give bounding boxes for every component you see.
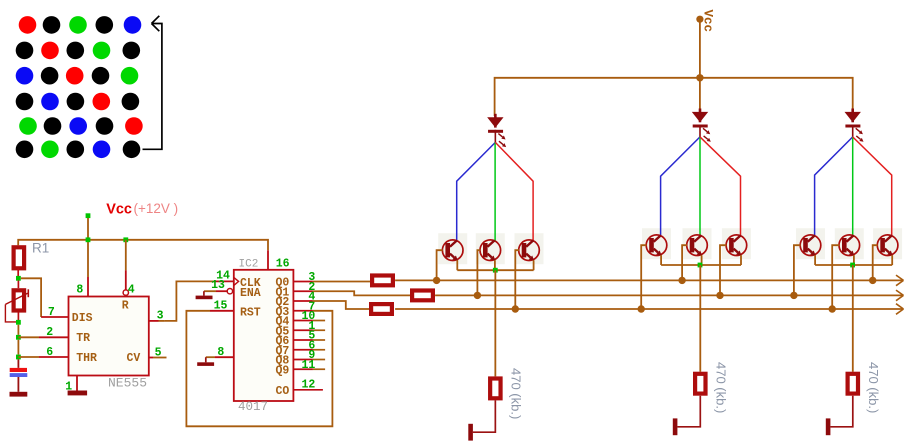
resistor R-470a [490,379,500,399]
wire Q1 to bus resistor [313,291,410,295]
LED colour-sequence legend row 5 [19,117,143,135]
svg-text:12: 12 [301,379,315,392]
svg-text:NE555: NE555 [108,376,147,391]
wire R-470a to ground [473,400,495,432]
ground (capacitor) [10,392,28,397]
pin stub CV (pin 5) [149,357,167,359]
svg-text:4017: 4017 [238,400,268,414]
wire base of T6 to bus [720,245,726,295]
svg-text:3: 3 [157,309,164,322]
resistor R-470c [848,374,858,394]
wire pin 8 to ground [206,357,215,362]
node Vcc symbol (green square) [86,213,91,218]
ground GND (R-470b) [673,418,678,435]
junction emitter rail 1 [493,268,498,273]
wire emitter rail group 2 [661,255,741,265]
resistor R-470b [695,374,705,394]
svg-text:R1: R1 [32,241,49,256]
junction base T9/bus [869,277,876,284]
wire capacitor to ground [17,377,19,392]
wire LED3 red (to T9) [853,137,892,236]
wire OUT stub tail [159,320,165,322]
pin stub Q5 [293,329,313,331]
pin stub THR (pin 6) [39,356,69,358]
wire Vcc drop to 555 pin 8 [87,218,89,277]
LED colour-sequence legend row 2 [16,42,140,60]
pin stub 555 pin 1 [76,376,78,391]
bus 1 arrow [896,275,904,286]
junction base T3/bus [512,305,519,312]
transistor T5 (NPN) [687,235,708,256]
wire stub Q6 (unconnected tail) [313,339,325,341]
ground (4017 pin 8) [197,362,214,366]
wire LED2 blue (to T4) [661,137,700,236]
wire pot to TR junction [17,325,19,335]
wire LED1 red (to T3) [495,142,533,240]
wire base of T7 to bus [794,245,801,295]
LED colour-sequence legend row 1 [19,16,142,34]
svg-text:IC2: IC2 [239,258,259,270]
wire base of T2 to bus [477,250,480,295]
junction rail/pin4 [123,237,128,242]
svg-text:DIS: DIS [72,312,93,325]
transistor T3 (NPN) [519,240,540,261]
wire R-470c to ground [830,396,852,427]
pin stub Q9 [293,368,313,370]
svg-text:470 (kb.): 470 (kb.) [509,368,524,419]
wire base of T1 to bus [437,250,443,280]
pin stub Q0 [293,281,313,283]
wire THR tap to pin 6 [18,356,39,358]
wire emitter rail to R-470b [699,265,701,372]
svg-text:6: 6 [46,346,53,359]
pin CLK (pin 14) stub + clock symbol [214,277,238,285]
LED colour-sequence legend row 6 [16,141,141,159]
wire stub Q4 (unconnected tail) [313,320,325,322]
svg-text:(+12V ): (+12V ) [134,201,179,216]
wire emitter rail group 1 [457,260,533,270]
wire emitter rail to R-470c [852,265,854,372]
node Vcc (supply dot) [696,16,703,23]
label Vcc (+12V) [106,201,178,217]
wire bus 1 (from R-Q0 to right edge) [395,279,903,281]
wire supply rail [18,240,268,251]
svg-text:CO: CO [276,385,290,398]
svg-text:R: R [122,300,129,313]
wire Q2 to bus resistor [313,301,369,309]
svg-text:8: 8 [76,283,83,296]
wire LED3 green (to T8) [852,137,854,236]
wire LED3 blue (to T7) [815,137,853,236]
wire base of T8 to bus [832,245,839,309]
resistor R1 [14,247,25,268]
wire Q3 feedback loop to RST [186,311,332,427]
transistor T6 (NPN) [726,235,747,256]
junction base T1/bus [433,277,440,284]
ground (ENA) [196,296,213,300]
transistor background highlights [438,228,902,264]
wire stub Q5 (unconnected tail) [313,329,325,331]
pin ENA (pin 13) bubble [216,289,233,294]
svg-text:THR: THR [76,352,97,365]
junction base T5/bus [678,277,685,284]
wire base of T4 to bus [641,245,646,309]
pin stub Q8 [293,359,313,361]
junction emitter rail 2 [698,263,703,268]
capacitor C1 (electrolytic) [10,368,28,377]
wire stub Q9 (unconnected tail) [313,368,325,370]
pin stub TR (pin 2) [39,336,69,338]
legend cycle arrow [143,16,162,150]
pin stub Q4 [293,320,313,322]
transistor T9 (NPN) [877,235,898,256]
transistor T7 (NPN) [800,235,821,256]
potentiometer P1 [5,281,28,322]
svg-text:2: 2 [46,326,53,339]
wire emitter rail to R-470a [494,270,496,376]
wire emitter rail group 3 [815,255,892,265]
wire LED2 red (to T6) [700,137,741,236]
transistor T8 (NPN) [839,235,860,256]
wire bus 3 (from R-Q2 to right edge) [395,308,903,310]
svg-text:15: 15 [214,299,228,312]
junction base T2/bus [474,292,481,299]
wire THR junction to capacitor [17,359,19,368]
svg-text:5: 5 [155,346,162,359]
junction TR tap [16,335,21,340]
counter U2 4017 body [234,270,294,401]
svg-text:RST: RST [240,306,261,319]
wire base of T3 to bus [515,250,519,309]
pin stub DIS (pin 7) [41,316,68,318]
transistor T4 (NPN) [646,235,667,256]
pin stub Q2 [293,300,313,302]
LED LED3 (RGB LED anode symbol) [845,109,864,142]
transistor T2 (NPN) [480,240,501,261]
wire bus 2 (from R-Q1 to right edge) [435,294,903,296]
pin stub OUT (pin 3) [149,320,159,322]
wire TR tap to pin 2 [18,336,39,338]
pin stub Q3 [293,310,313,312]
junction R1/pot/DIS [16,276,21,281]
LED LED1 (RGB LED anode symbol) [487,114,506,147]
wire base of T5 to bus [682,245,687,280]
pin RST (pin 15) stub [210,310,234,312]
wire TR junction to THR junction [17,340,19,355]
bus 2 arrow [896,290,904,301]
op-amp/timer U1 NE555 body [69,297,149,376]
junction base T8/bus [829,305,836,312]
svg-text:8: 8 [217,346,224,359]
pin stub Q7 [293,349,313,351]
wire anode supply rail [495,78,853,116]
wire LED1 blue (to T1) [457,142,496,240]
wire R-470b to ground [677,396,700,427]
LED colour-sequence legend row 4 [16,93,140,111]
junction base T6/bus [716,292,723,299]
resistor R-Q1 [412,291,433,301]
junction base T7/bus [790,292,797,299]
pin stub 555 pin 8 [87,277,89,297]
junction base T4/bus [638,305,645,312]
wire junction to DIS [21,278,41,317]
svg-text:Vcc: Vcc [701,10,715,33]
svg-text:7: 7 [48,306,55,319]
svg-text:ENA: ENA [240,287,261,300]
pin stub CO (pin 12) [293,389,323,391]
wire stub Q7 (unconnected tail) [313,349,325,351]
wire Vcc dot to rail [699,23,701,78]
wire 555 OUT to 4017 CLK [165,281,214,321]
junction rail/Vcc [696,74,703,81]
pin stub 4017 pin 8 [215,356,234,358]
junction pot bottom [16,320,21,325]
wire base of T9 to bus [873,245,878,280]
wire stub Q8 (unconnected tail) [313,359,325,361]
svg-text:CV: CV [127,352,141,365]
svg-text:470 (kb.): 470 (kb.) [866,362,881,413]
pin stub 555 pin 4 with inversion bubble [123,270,128,295]
svg-text:Q9: Q9 [276,364,290,377]
LED LED2 (RGB LED anode symbol) [692,109,711,142]
resistor R-Q2 [371,304,392,314]
wire rail to 555 pin 4 [125,240,127,271]
pin stub Q6 [293,339,313,341]
svg-text:11: 11 [301,359,315,372]
resistor R-Q0 [372,276,393,286]
pin stub 4017 pin 16 [267,250,269,269]
ground (555 pin 1) [68,391,88,396]
ground GND (R-470a) [468,424,473,441]
wire LED1 green (to T2) [494,142,496,240]
ground GND (R-470c) [826,418,831,435]
wire rail to LED2 [699,78,701,111]
svg-text:16: 16 [276,257,290,270]
svg-text:TR: TR [76,332,90,345]
pin stub Q1 [293,290,313,292]
LED colour-sequence legend row 3 [16,67,139,85]
junction emitter rail 3 [850,263,855,268]
wire ENA to ground [204,291,216,295]
junction rail/pin8 [86,237,91,242]
wire R1 bottom to junction [17,268,19,276]
wire LED2 green (to T5) [699,137,701,236]
svg-text:13: 13 [211,279,225,292]
svg-text:470 (kb.): 470 (kb.) [714,362,729,413]
transistor T1 (NPN) [442,240,463,261]
svg-text:Vcc: Vcc [106,201,132,217]
svg-text:4: 4 [128,283,135,296]
bus 3 arrow [896,304,904,315]
wire Q0 to bus resistor [313,281,370,283]
junction THR tap [16,355,21,360]
